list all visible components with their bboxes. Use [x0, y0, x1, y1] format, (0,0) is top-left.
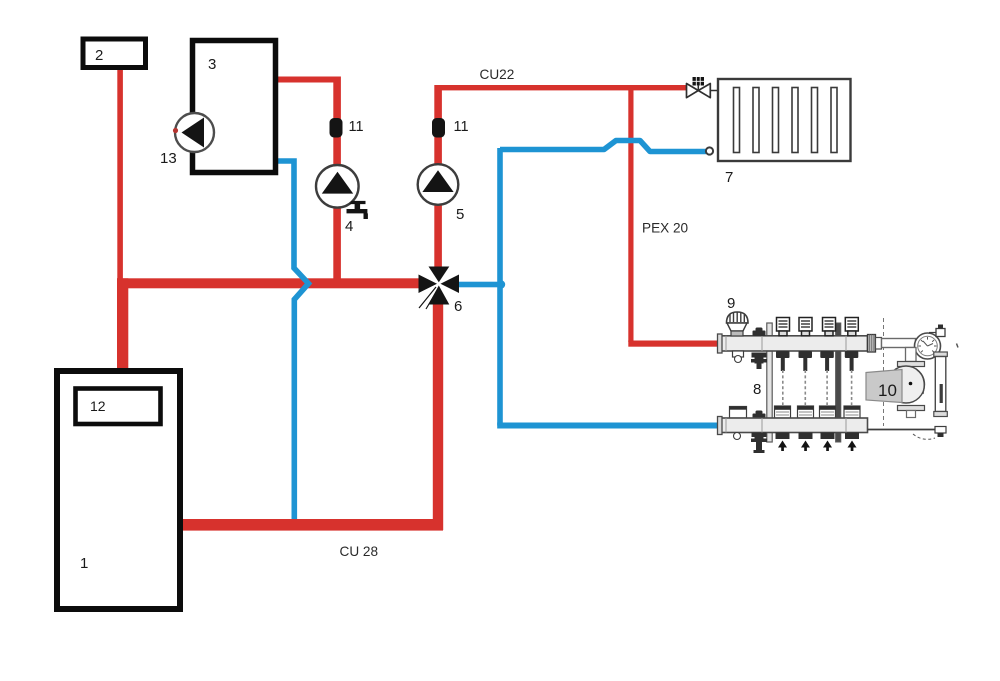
dashed stems to flow meters: [783, 370, 852, 405]
boiler 1 box: [57, 371, 180, 609]
svg-text:CU22: CU22: [480, 67, 515, 82]
pipe: blue stub cap: [497, 280, 505, 288]
check valve 11 left: [330, 118, 343, 138]
pipe: red supply from vessel 2 down: [117, 66, 123, 283]
svg-text:10: 10: [878, 381, 897, 400]
pipe: blue tank 3 return with chevron crossover: [276, 161, 309, 519]
pipe: red thick vertical into boiler 1: [117, 278, 128, 370]
below top bar: black flanged valve: [751, 353, 767, 370]
pipe: red main horizontal supply: [117, 278, 420, 288]
valve 6 three-way mixing valve: [419, 267, 460, 305]
right top bracket valve: [929, 325, 945, 337]
pipe: red PEX20 vertical to manifold: [628, 87, 633, 342]
svg-text:1: 1: [80, 555, 88, 572]
svg-text:PEX 20: PEX 20: [642, 221, 689, 236]
valve 6 handle lines: [419, 287, 438, 309]
pipe: red tank 3 outlet horizontal: [276, 77, 340, 83]
flow meters on bottom bar: [730, 406, 861, 418]
tank 3 box: [193, 41, 276, 173]
pump 4: [316, 165, 359, 208]
bottom bar small valve: [753, 411, 766, 419]
check valve 11 right: [432, 118, 445, 138]
pipe: blue riser vertical: [497, 148, 503, 426]
manifold top bar: [721, 336, 868, 351]
svg-text:13: 13: [160, 150, 177, 167]
svg-text:2: 2: [95, 47, 103, 64]
pipe: red CU28 return vertical to valve 6: [433, 300, 443, 530]
pump 13: [175, 113, 214, 152]
pump box 10: [866, 370, 902, 403]
radiator valve bowtie: [687, 84, 711, 98]
radiator connector circle: [706, 147, 713, 154]
loop valve caps under top bar with stems: [776, 351, 858, 371]
radiator valve cap: [693, 77, 705, 86]
tap symbol: [347, 201, 368, 219]
pump body: [888, 366, 925, 403]
under bottom bar: drain: [734, 433, 741, 440]
radiator 7 body: [718, 79, 851, 161]
svg-text:7: 7: [725, 169, 733, 186]
vessel 2 box: [83, 39, 146, 68]
pump elbow down: [906, 348, 917, 362]
right: pipe from top bar: [868, 335, 876, 353]
svg-text:CU 28: CU 28: [340, 544, 379, 559]
svg-text:11: 11: [454, 119, 469, 135]
pipe: red branch pump 5 vertical: [434, 85, 442, 269]
svg-text:9: 9: [727, 295, 735, 312]
svg-text:11: 11: [349, 119, 364, 135]
svg-text:6: 6: [454, 298, 462, 315]
bracket light column: [767, 323, 772, 442]
bracket dark column: [836, 323, 841, 442]
pipe: red branch pump 4 vertical: [333, 77, 341, 283]
svg-text:3: 3: [208, 56, 216, 73]
gauge thermometer: [915, 333, 941, 359]
stray mark right: [957, 344, 959, 348]
pump 5: [418, 164, 459, 205]
svg-text:4: 4: [345, 218, 353, 235]
loop connectors under bottom bar with arrows: [776, 433, 860, 440]
svg-text:5: 5: [456, 206, 464, 223]
sight glasses on top bar: [777, 318, 859, 336]
air vent 9: [727, 312, 749, 336]
manifold top valve knob: [753, 328, 766, 337]
below top bar: drain small: [733, 351, 744, 357]
panel 12 box: [76, 389, 161, 425]
svg-text:8: 8: [753, 381, 761, 398]
under bottom bar: black flanged valve: [751, 433, 767, 454]
manifold bottom bar: [721, 418, 868, 433]
pipe: red manifold feed horizontal: [628, 341, 720, 347]
svg-text:12: 12: [90, 398, 106, 414]
pipe: red CU22 horizontal to radiator: [436, 85, 688, 90]
dashed mounting line: [883, 318, 885, 426]
right vertical column: [934, 352, 948, 357]
radiator fins: [734, 88, 838, 153]
pipe: blue radiator return with hump crossover: [500, 141, 706, 152]
pipe: blue stub valve 6 to riser: [459, 282, 503, 288]
bottom right connecting line: [868, 429, 942, 431]
pipe: red CU28 return horizontal: [183, 519, 443, 531]
manifold 8 assembly: [767, 318, 884, 442]
pipe: blue manifold return horizontal: [497, 423, 719, 429]
